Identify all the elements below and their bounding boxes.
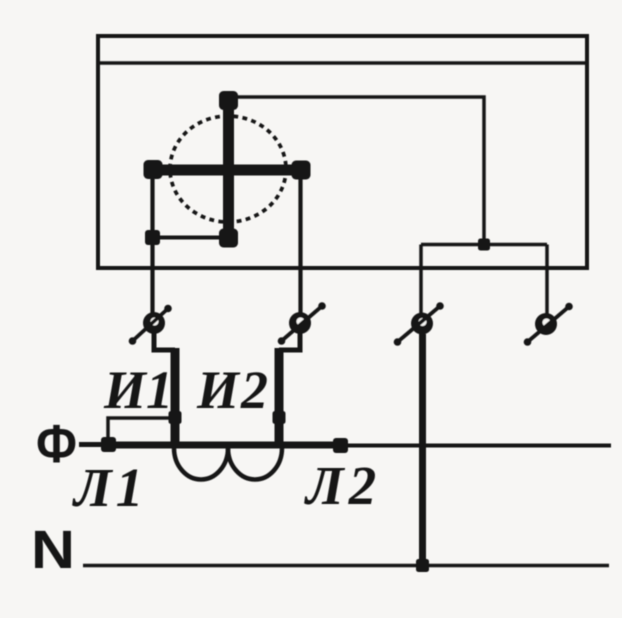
wire: junction to cross bottom node [153,236,227,240]
meter body outline [98,36,587,268]
meter terminal-cover divider line [98,61,587,65]
wire: left coil lead down [150,171,154,318]
coil cross horizontal arm [153,165,301,176]
node: cross top [219,91,238,110]
junction on voltage bar [478,239,490,251]
svg-text:Л1: Л1 [72,457,147,518]
wire: voltage bar left leg down to terminal 3 [419,245,423,315]
wire: phase stub [79,442,104,447]
wire: neutral tap thick vertical [419,334,426,565]
node: cross bottom [219,229,238,248]
wire: voltage link bar [421,243,547,247]
wire: terminal 1 jog [154,331,175,350]
svg-text:И2: И2 [196,360,270,420]
node L1 [101,437,116,452]
svg-text:Л2: Л2 [304,455,381,516]
terminal screw 1 [129,305,172,345]
svg-text:N: N [31,520,75,580]
wire: phase line to the right [341,444,611,448]
measuring element circle (disc) [170,116,286,222]
coil cross vertical arm [223,100,234,238]
wire: primary thick line L1-L2 [102,442,341,449]
junction on I2 lead [273,411,286,424]
node L2 [333,438,348,453]
terminal screw 4 [524,303,573,346]
junction on neutral line [416,559,429,572]
node: cross right [292,161,311,180]
junction on I1 lead [169,411,182,424]
junction on left coil lead [145,230,160,245]
wire: terminal 2 jog [279,331,300,350]
wire: L1 node up-and-over connector to I1 lead [108,418,172,444]
terminal screw 3 [394,302,444,346]
svg-text:Ф: Ф [36,414,77,474]
wire: I2 lead thick [275,348,284,446]
svg-text:И1: И1 [103,360,173,420]
wire: right coil lead down [298,172,302,318]
terminal screw 2 [278,302,326,345]
wire: I1 lead thick [171,348,180,446]
wire: neutral line [83,564,609,568]
node: cross left [144,160,163,179]
CT primary loop 1 [174,448,228,480]
CT primary loop 2 [228,448,282,480]
wire: voltage tap from top node to right, then down [231,97,484,245]
wire: voltage bar right leg down to terminal 4 [545,245,549,316]
